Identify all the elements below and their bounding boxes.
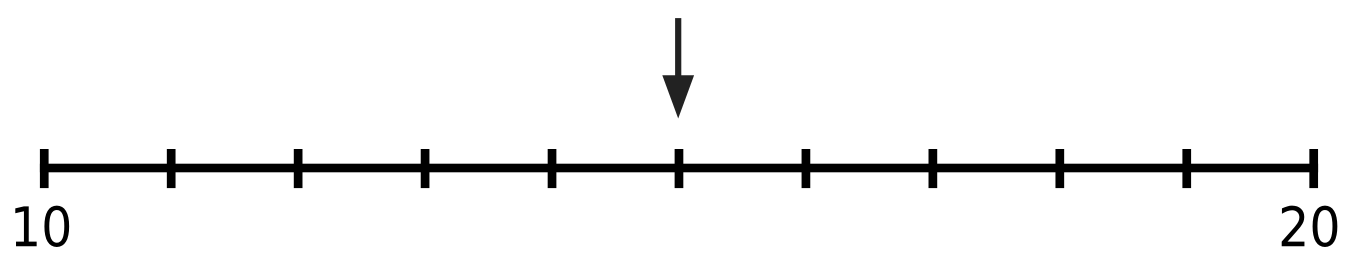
label 10 — [15, 206, 69, 247]
tick mark 20 — [1309, 149, 1318, 188]
label 20 — [1282, 206, 1338, 247]
arrow head — [662, 75, 694, 118]
tick mark 12 — [294, 149, 303, 188]
number line main bar — [40, 164, 1318, 173]
tick mark 10 — [40, 149, 49, 188]
tick mark 19 — [1182, 149, 1191, 188]
tick mark 13 — [421, 149, 430, 188]
tick mark 17 — [929, 149, 938, 188]
tick mark 11 — [167, 149, 176, 188]
tick mark 14 — [548, 149, 557, 188]
arrow shaft — [675, 18, 681, 80]
tick mark 16 — [802, 149, 811, 188]
tick mark 15 — [675, 149, 684, 188]
tick mark 18 — [1055, 149, 1064, 188]
